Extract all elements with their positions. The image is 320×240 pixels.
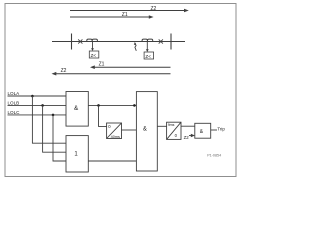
arrow zone Z2 forward bbox=[70, 9, 189, 13]
svg-text:Z<: Z< bbox=[145, 54, 151, 59]
wire LOLC bbox=[8, 114, 67, 116]
svg-text:P1-0854: P1-0854 bbox=[207, 153, 221, 157]
wire LOLA tap bbox=[32, 96, 66, 143]
AND gate U3 bbox=[136, 92, 157, 171]
breaker A bbox=[78, 39, 82, 43]
timer T1 bbox=[107, 123, 122, 139]
AND gate U4 bbox=[195, 123, 211, 138]
svg-text:Z<: Z< bbox=[91, 53, 97, 58]
breaker B bbox=[159, 39, 163, 43]
svg-text:9ms: 9ms bbox=[168, 123, 175, 127]
svg-text:Trip: Trip bbox=[217, 126, 225, 131]
svg-text:Z2: Z2 bbox=[61, 68, 67, 74]
wire CT A to relay bbox=[92, 42, 94, 50]
junction LOLC bbox=[52, 114, 55, 117]
svg-text:LOLA: LOLA bbox=[8, 91, 21, 96]
arrow zone Z2 reverse bbox=[52, 72, 171, 76]
CT B bbox=[142, 39, 153, 41]
svg-text:&: & bbox=[74, 105, 79, 112]
OR gate U2 bbox=[66, 136, 88, 172]
svg-text:40ms: 40ms bbox=[111, 135, 120, 139]
junction LOLA bbox=[31, 95, 34, 98]
junction LOLB bbox=[41, 104, 44, 107]
svg-text:LOLC: LOLC bbox=[8, 110, 21, 115]
svg-text:&: & bbox=[143, 127, 147, 133]
wire U3 output bbox=[157, 125, 166, 127]
busbar B bbox=[170, 34, 172, 50]
fault symbol bbox=[134, 42, 137, 51]
arrow zone Z1 reverse bbox=[90, 65, 171, 69]
junction U1 out bbox=[97, 104, 100, 107]
svg-text:Z1: Z1 bbox=[99, 62, 105, 68]
junction U3 in bbox=[133, 104, 136, 107]
svg-text:Z2: Z2 bbox=[184, 135, 190, 140]
svg-text:Z2: Z2 bbox=[151, 6, 157, 12]
wire T2 output bbox=[181, 125, 195, 127]
wire U2 output bbox=[88, 160, 136, 162]
frame border bbox=[5, 4, 236, 177]
CT A bbox=[87, 39, 98, 41]
svg-text:Z1: Z1 bbox=[122, 12, 128, 18]
AND gate U1 bbox=[66, 92, 88, 127]
relay A box Z< bbox=[89, 51, 99, 58]
wire protected line bbox=[52, 41, 185, 43]
arrow zone Z1 forward bbox=[70, 15, 154, 19]
wire LOLB bbox=[8, 104, 67, 106]
relay B box Z< bbox=[144, 52, 154, 59]
wire to timer T1 bbox=[99, 105, 107, 126]
svg-text:LOLB: LOLB bbox=[8, 100, 20, 105]
wire CT B to relay bbox=[146, 42, 148, 51]
wire U1 output bbox=[88, 104, 136, 106]
wire Trip output bbox=[211, 129, 217, 131]
wire LOLA bbox=[8, 95, 67, 97]
timer T2 bbox=[167, 122, 181, 139]
wire LOLC tap bbox=[53, 115, 66, 161]
wire T1 output bbox=[122, 129, 137, 131]
wire Z2 input arrow bbox=[189, 134, 195, 137]
wire LOLB tap bbox=[43, 105, 66, 152]
busbar A bbox=[71, 34, 73, 50]
